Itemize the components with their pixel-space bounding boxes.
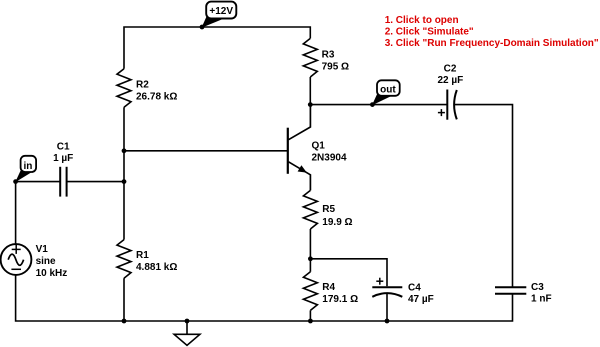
svg-text:2. Click "Simulate": 2. Click "Simulate" — [385, 26, 474, 37]
svg-text:R1: R1 — [136, 250, 149, 261]
wire R1 bottom — [123, 278, 125, 321]
svg-text:179.1 Ω: 179.1 Ω — [322, 294, 358, 305]
svg-text:R3: R3 — [322, 50, 335, 61]
svg-text:R4: R4 — [322, 282, 335, 293]
resistor R4 — [303, 259, 358, 321]
node in — [13, 156, 36, 184]
node C4 bottom junction — [385, 319, 390, 324]
wire emitter junction to C4 — [310, 259, 387, 287]
svg-text:47 µF: 47 µF — [408, 294, 434, 305]
node emitter junction — [308, 256, 313, 261]
svg-text:C2: C2 — [444, 63, 457, 74]
ground — [174, 321, 200, 345]
resistor R2 — [117, 69, 177, 108]
wire in to C1 — [16, 182, 60, 245]
capacitor C3 — [495, 282, 552, 305]
svg-text:C1: C1 — [57, 142, 70, 153]
node out — [370, 80, 400, 107]
capacitor C2 — [438, 63, 464, 119]
svg-text:22 µF: 22 µF — [438, 75, 464, 86]
svg-text:19.9 Ω: 19.9 Ω — [322, 217, 352, 228]
node bottom-left junction — [122, 319, 127, 324]
svg-text:C3: C3 — [531, 282, 544, 293]
wire out rail — [310, 104, 447, 106]
wire C4 bottom — [386, 294, 388, 321]
svg-text:795 Ω: 795 Ω — [322, 61, 349, 72]
node base junction — [122, 148, 127, 153]
note red instructions — [385, 15, 599, 49]
svg-text:1 µF: 1 µF — [53, 153, 73, 164]
svg-text:1 nF: 1 nF — [531, 294, 552, 305]
capacitor C4 — [372, 278, 433, 305]
svg-text:V1: V1 — [36, 244, 49, 255]
svg-text:1. Click to open: 1. Click to open — [385, 15, 459, 26]
wire base — [124, 150, 288, 152]
svg-text:sine: sine — [36, 256, 56, 267]
svg-text:C4: C4 — [408, 282, 421, 293]
node C1 junction — [122, 179, 127, 184]
resistor R1 — [117, 240, 177, 279]
svg-text:Q1: Q1 — [312, 141, 326, 152]
node collector junction — [308, 102, 313, 107]
svg-text:10 kHz: 10 kHz — [36, 268, 68, 279]
wire C1 to rail — [67, 181, 124, 183]
svg-text:4.881 kΩ: 4.881 kΩ — [136, 262, 177, 273]
resistor R5 — [303, 190, 352, 258]
svg-text:in: in — [23, 161, 32, 172]
transistor Q1 — [288, 105, 347, 191]
node R4 bottom junction — [308, 319, 313, 324]
svg-text:out: out — [380, 84, 396, 95]
node ground junction — [185, 319, 190, 324]
node +12V — [200, 2, 237, 30]
wire left rail below R2 — [123, 107, 125, 239]
wire top rail — [124, 27, 310, 69]
svg-text:26.78 kΩ: 26.78 kΩ — [136, 92, 177, 103]
resistor R3 — [303, 38, 349, 104]
capacitor C1 — [53, 142, 73, 197]
svg-text:R5: R5 — [322, 204, 335, 215]
svg-text:+12V: +12V — [209, 6, 233, 17]
svg-text:2N3904: 2N3904 — [312, 153, 347, 164]
wire V1 bottom + bottom rail — [16, 275, 513, 321]
wire C2 to right rail — [455, 105, 513, 287]
svg-text:3. Click "Run Frequency-Domain: 3. Click "Run Frequency-Domain Simulatio… — [385, 38, 599, 49]
svg-text:R2: R2 — [136, 80, 149, 91]
source V1 — [1, 244, 68, 279]
